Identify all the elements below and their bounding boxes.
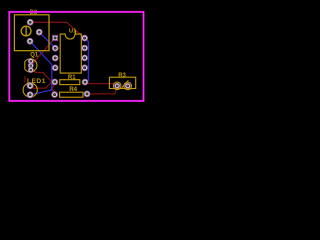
pad U1 pin1R: [82, 35, 88, 41]
pad LED1 cathode: [27, 92, 33, 98]
wire blue trace D2 pad2 to U1 pin2L: [39, 32, 55, 48]
wire red trace D2 pad1 to U1 pin1R: [30, 22, 84, 38]
pad D2-1: [27, 19, 33, 25]
op-amp U1 DIP body outline: [60, 34, 81, 73]
pad Q1-3: [28, 68, 33, 73]
wire red stub left of LED1 label: [24, 76, 26, 83]
svg-text:R1: R1: [68, 75, 76, 81]
pad U1 pin1L square: [53, 35, 58, 40]
pad D2-2: [36, 29, 42, 35]
svg-text:R3: R3: [118, 73, 126, 79]
jumper R3 slash: [122, 80, 129, 87]
wire red trace R1 right pad to R3 left pad: [85, 82, 117, 86]
pad U1 pin4L: [52, 65, 58, 71]
jumper R3 right circle: [124, 82, 132, 90]
svg-text:R4: R4: [69, 86, 77, 93]
pad R1 left: [52, 79, 58, 85]
pad LED1 anode: [27, 83, 33, 89]
wire red trace LED1 anode to R1 left pad: [30, 82, 55, 88]
board outline: [9, 12, 143, 101]
wire blue trace U1 pin1R to R1 right pad: [85, 38, 89, 82]
svg-text:U1: U1: [69, 29, 77, 35]
LED1 outline: [23, 83, 37, 97]
transistor Q1 TO-92 outline: [25, 59, 37, 72]
component D2 circle bar: [25, 26, 27, 36]
wire red trace Q1 pad3 to R1 left pad: [31, 70, 55, 82]
pad U1 pin3L: [52, 55, 58, 61]
wire red trace R1 left pad to R4 left pad: [52, 82, 55, 95]
component D2 circle symbol: [21, 26, 31, 36]
pad U1 pin2R: [82, 45, 88, 51]
pad R3 left: [115, 83, 120, 88]
wire blue trace D2 pad3 to LED1 cathode: [30, 41, 52, 95]
wire red trace R4 right pad to R3 left pad: [87, 86, 117, 94]
pad Q1-2: [28, 63, 33, 68]
jumper R3 left circle: [113, 82, 121, 90]
jumper R3 outline box: [109, 77, 135, 88]
svg-text:Q1: Q1: [30, 53, 39, 59]
pad D2-3: [27, 38, 33, 44]
pad Q1-1: [28, 59, 33, 64]
resistor R4 body: [60, 92, 83, 97]
resistor R1 body: [60, 80, 80, 85]
op-amp U1 pin1 tick mark: [75, 30, 77, 34]
pad U1 pin4R: [82, 65, 88, 71]
pad U1 pin3R: [82, 55, 88, 61]
pad U1 pin2L: [52, 45, 58, 51]
pad R4 left: [52, 92, 58, 98]
pad R3 right: [125, 83, 130, 88]
pad R4 right: [84, 91, 90, 97]
pad R1 right: [82, 79, 88, 85]
component D2 silkscreen box: [14, 15, 49, 51]
wire red trace U1 pin1L to Q1 pad2: [31, 38, 55, 66]
